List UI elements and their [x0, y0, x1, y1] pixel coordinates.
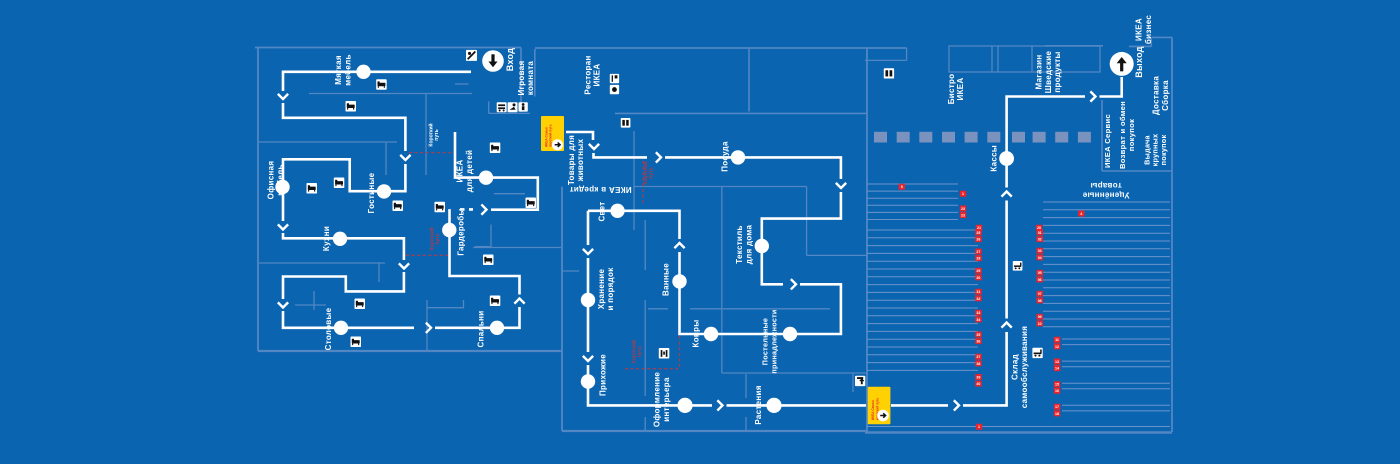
- svg-text:Гардеробы: Гардеробы: [457, 208, 466, 255]
- label large pickup: [1142, 134, 1168, 167]
- svg-text:16: 16: [1055, 389, 1059, 393]
- checkout lanes: [874, 132, 1091, 143]
- label returns: [1118, 101, 1136, 169]
- label bistro: [947, 74, 965, 105]
- node living rooms: [377, 184, 391, 198]
- icon shortcut stairs: [659, 348, 670, 359]
- icon baby care: [508, 102, 518, 112]
- icon bistro: [884, 68, 894, 78]
- label shortcut red 1: [428, 227, 441, 250]
- node wardrobes: [442, 223, 456, 237]
- label ikea business: [1135, 15, 1153, 45]
- svg-text:Посуда: Посуда: [721, 141, 730, 172]
- svg-text:12: 12: [1055, 345, 1059, 349]
- node ikea children: [479, 171, 493, 185]
- svg-text:Кухни: Кухни: [322, 226, 331, 251]
- label self serve: [1011, 326, 1029, 408]
- node plants: [766, 398, 781, 413]
- svg-text:принадлежности: принадлежности: [769, 309, 778, 373]
- icon toilets: [519, 102, 528, 111]
- label bed linen: [761, 309, 779, 373]
- svg-text:Хранение: Хранение: [597, 268, 606, 309]
- node checkouts: [999, 151, 1014, 166]
- svg-text:покупок: покупок: [1127, 119, 1136, 151]
- svg-text:Бистро: Бистро: [947, 74, 956, 105]
- svg-text:животных: животных: [576, 138, 585, 182]
- label lighting: [598, 201, 607, 221]
- icon stroller: [497, 102, 507, 112]
- svg-text:путь: путь: [435, 233, 441, 244]
- svg-text:путь: путь: [637, 346, 643, 357]
- svg-text:и порядок: и порядок: [606, 267, 615, 311]
- icon restaurant cafe: [610, 85, 619, 94]
- svg-text:ИКЕА Сервис: ИКЕА Сервис: [1103, 114, 1112, 168]
- svg-text:Оформление: Оформление: [653, 372, 662, 428]
- icon trolley 1: [1013, 261, 1023, 271]
- svg-text:10: 10: [1038, 322, 1042, 326]
- svg-text:покупок: покупок: [1159, 135, 1168, 166]
- svg-text:интерьера: интерьера: [662, 377, 671, 422]
- svg-text:39: 39: [976, 375, 980, 379]
- svg-text:06: 06: [1038, 278, 1042, 282]
- svg-text:Спальни: Спальни: [476, 311, 485, 348]
- svg-text:17: 17: [1055, 405, 1059, 409]
- label shortcut white: [427, 123, 440, 146]
- svg-text:ИКЕА Семья: ИКЕА Семья: [544, 127, 548, 147]
- warehouse shelf rows right: [1043, 202, 1170, 411]
- aisle markers warehouse: [899, 184, 906, 190]
- label bathrooms: [662, 263, 671, 296]
- label ikea credit: [569, 185, 631, 194]
- svg-text:05: 05: [1038, 271, 1042, 275]
- svg-text:Шведские: Шведские: [1044, 51, 1053, 94]
- svg-text:28: 28: [976, 257, 980, 261]
- svg-text:25: 25: [976, 231, 980, 235]
- svg-text:Растения: Растения: [754, 385, 763, 424]
- label storage: [597, 267, 615, 311]
- svg-text:ИКЕА: ИКЕА: [956, 78, 965, 101]
- svg-text:мебель: мебель: [343, 54, 352, 85]
- svg-text:товары: товары: [1090, 181, 1121, 190]
- svg-text:40: 40: [976, 382, 980, 386]
- svg-text:Гостиные: Гостиные: [367, 172, 376, 213]
- svg-text:Сборка: Сборка: [1161, 80, 1170, 111]
- label hallways: [599, 354, 608, 396]
- svg-text:ИКЕА Семья: ИКЕА Семья: [871, 400, 875, 420]
- svg-text:34: 34: [976, 318, 980, 322]
- node textiles: [755, 239, 769, 253]
- svg-text:Кассы: Кассы: [990, 145, 999, 172]
- shortcut dash carpets: [679, 336, 681, 368]
- node bathrooms: [672, 274, 686, 288]
- svg-text:09: 09: [1038, 315, 1042, 319]
- svg-text:1: 1: [962, 192, 964, 196]
- svg-text:для дома: для дома: [744, 224, 753, 264]
- svg-text:Ковры: Ковры: [691, 320, 700, 348]
- label swedish food: [1035, 51, 1062, 94]
- svg-text:мебель: мебель: [276, 164, 285, 195]
- svg-text:ИКЕА: ИКЕА: [593, 64, 602, 87]
- node hallways: [581, 374, 595, 388]
- svg-text:15: 15: [1055, 383, 1059, 387]
- svg-text:07: 07: [1038, 292, 1042, 296]
- svg-text:путь: путь: [649, 167, 655, 178]
- node kitchens: [333, 232, 347, 246]
- svg-text:Склад: Склад: [1011, 354, 1020, 380]
- svg-text:01: 01: [1038, 231, 1042, 235]
- svg-text:самообслуживания: самообслуживания: [1020, 326, 1029, 408]
- label textiles: [735, 224, 753, 264]
- svg-text:Свет: Свет: [598, 201, 607, 221]
- svg-text:36: 36: [976, 340, 980, 344]
- svg-text:Выход: Выход: [1134, 46, 1144, 78]
- svg-text:30: 30: [976, 276, 980, 280]
- svg-text:1: 1: [978, 425, 980, 429]
- route market hall: [566, 132, 593, 140]
- svg-text:14: 14: [1055, 367, 1059, 371]
- shortcut dash tableware: [642, 161, 644, 203]
- label plants: [754, 385, 763, 424]
- svg-text:03: 03: [1038, 249, 1042, 253]
- entrance circle: [482, 50, 504, 72]
- svg-text:Прихожие: Прихожие: [599, 354, 608, 396]
- sofa icons showroom: [376, 79, 387, 90]
- showroom inner walls: [309, 93, 472, 95]
- label shortcut red 3: [630, 340, 643, 363]
- svg-text:бизнес: бизнес: [1144, 15, 1153, 45]
- node soft furniture: [356, 65, 370, 79]
- svg-text:Возврат и обмен: Возврат и обмен: [1118, 101, 1127, 169]
- node dining: [334, 321, 348, 335]
- swedish food market shelves: [949, 46, 1100, 72]
- route warehouse: [891, 404, 948, 407]
- svg-text:путь: путь: [434, 129, 440, 140]
- label playroom: [517, 61, 535, 96]
- label discounted goods: [1082, 181, 1129, 199]
- svg-text:29: 29: [976, 269, 980, 273]
- svg-text:08: 08: [1038, 299, 1042, 303]
- svg-text:38: 38: [976, 362, 980, 366]
- showroom block outline: [255, 47, 521, 49]
- shortcut dash near entrance: [409, 152, 453, 154]
- market hall block outline: [535, 47, 906, 49]
- label restaurant: [583, 55, 601, 94]
- label shortcut red 2: [642, 161, 655, 184]
- svg-text:31: 31: [976, 290, 980, 294]
- svg-text:комната: комната: [526, 61, 535, 96]
- label ikea service: [1103, 114, 1112, 168]
- svg-text:Офисная: Офисная: [267, 161, 276, 200]
- node bed linen: [783, 327, 797, 341]
- svg-text:продукты: продукты: [1053, 51, 1062, 92]
- node lighting: [610, 204, 624, 218]
- node interior design: [677, 398, 692, 413]
- svg-text:Вход: Вход: [505, 48, 515, 71]
- warehouse block outline: [866, 48, 868, 432]
- svg-text:4: 4: [1080, 212, 1082, 216]
- label dining: [324, 307, 333, 350]
- svg-text:32: 32: [976, 297, 980, 301]
- svg-text:Магазин: Магазин: [1035, 55, 1044, 90]
- exit circle: [1110, 52, 1134, 76]
- node carpets: [704, 327, 718, 341]
- svg-text:23: 23: [961, 214, 965, 218]
- node bedrooms: [490, 321, 504, 335]
- label tableware: [721, 141, 730, 172]
- yellow shortcut sign bottom: [868, 387, 891, 424]
- node storage: [581, 293, 595, 307]
- label exit: [1134, 46, 1144, 78]
- route showroom: [283, 72, 471, 91]
- label interior design: [653, 372, 671, 428]
- svg-text:23: 23: [961, 207, 965, 211]
- svg-text:35: 35: [976, 333, 980, 337]
- svg-text:ИКЕА: ИКЕА: [456, 160, 465, 183]
- label bedrooms: [476, 311, 485, 348]
- svg-text:Доставка: Доставка: [1152, 76, 1161, 115]
- label kitchens: [322, 226, 331, 251]
- label delivery assembly: [1152, 76, 1170, 115]
- icon escalator entrance: [466, 50, 477, 61]
- svg-text:Мягкая: Мягкая: [334, 55, 343, 85]
- svg-text:04: 04: [1038, 256, 1042, 260]
- svg-text:33: 33: [976, 311, 980, 315]
- svg-text:Ресторан: Ресторан: [583, 55, 592, 94]
- svg-text:Уценённые: Уценённые: [1082, 190, 1129, 199]
- label ikea for children: [456, 150, 474, 192]
- services wall: [1101, 100, 1103, 171]
- warehouse shelf rows left: [867, 184, 1170, 427]
- svg-text:11: 11: [1055, 338, 1059, 342]
- svg-text:Ванные: Ванные: [662, 263, 671, 296]
- svg-text:ИКЕА в кредит: ИКЕА в кредит: [569, 185, 631, 194]
- icon exit corner market: [855, 376, 865, 386]
- svg-text:Текстиль: Текстиль: [735, 225, 744, 264]
- icon restaurant fork: [610, 74, 619, 83]
- svg-text:Столовые: Столовые: [324, 307, 333, 350]
- node office furniture: [275, 180, 289, 194]
- svg-text:18: 18: [1055, 412, 1059, 416]
- node tableware: [731, 150, 745, 164]
- market hall inner walls: [748, 48, 750, 112]
- bistro box: [865, 59, 907, 61]
- label living rooms: [367, 172, 376, 213]
- svg-text:Товары для: Товары для: [567, 135, 576, 185]
- svg-text:для детей: для детей: [465, 150, 474, 192]
- svg-text:5: 5: [901, 185, 903, 189]
- icon wc market: [621, 118, 631, 128]
- svg-text:ИКЕА: ИКЕА: [1135, 18, 1144, 41]
- label carpets: [691, 320, 700, 348]
- label office furniture: [267, 161, 285, 200]
- label pet goods: [567, 135, 585, 185]
- label entrance: [505, 48, 515, 71]
- svg-text:26: 26: [976, 238, 980, 242]
- shortcut dash kitchens-wardrobes: [406, 254, 448, 256]
- label wardrobes: [457, 208, 466, 255]
- svg-text:37: 37: [976, 355, 980, 359]
- svg-text:Игровая: Игровая: [517, 61, 526, 96]
- svg-text:13: 13: [1055, 360, 1059, 364]
- entrance lobby walls: [534, 49, 536, 97]
- yellow shortcut sign top: [541, 116, 564, 151]
- icon trolley 2: [1032, 348, 1042, 358]
- svg-text:27: 27: [976, 250, 980, 254]
- svg-text:02: 02: [1038, 238, 1042, 242]
- label checkouts: [990, 145, 999, 172]
- label soft furniture: [334, 54, 352, 85]
